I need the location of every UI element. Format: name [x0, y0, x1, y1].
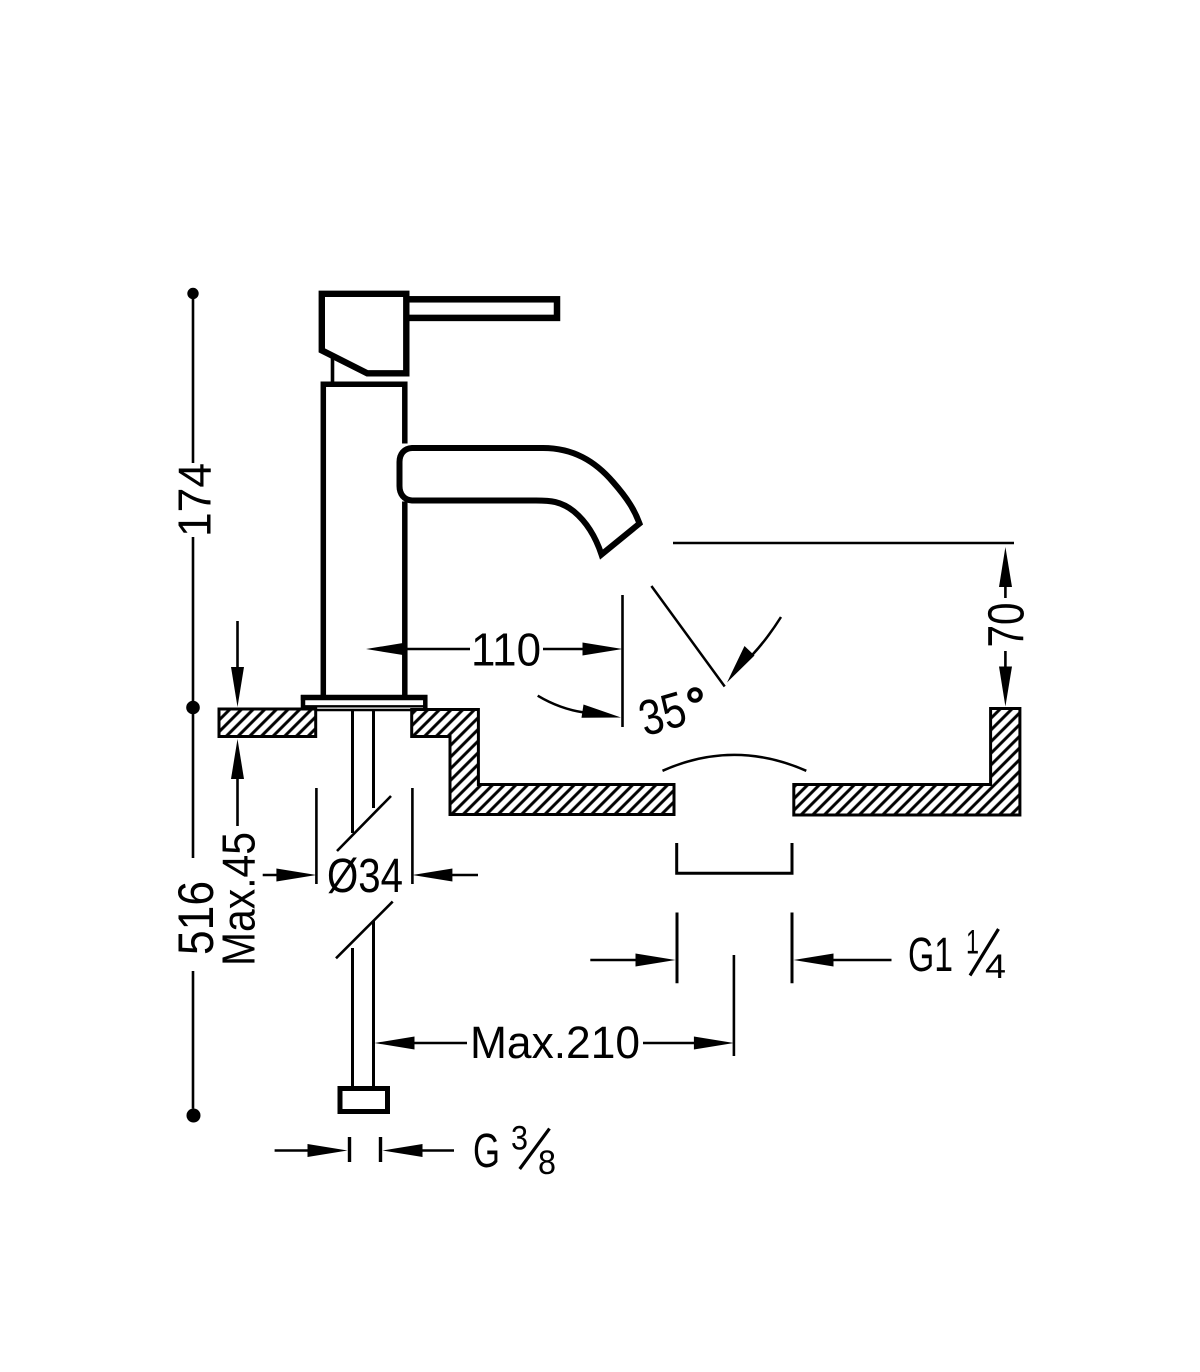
dot bottom: [187, 1109, 201, 1123]
svg-text:4: 4: [985, 948, 1006, 986]
faucet body column: [323, 384, 405, 697]
svg-text:110: 110: [471, 624, 541, 676]
Max.45 bottom arrow: [236, 779, 239, 826]
dot countertop: [186, 701, 200, 715]
G 3/8 ticks: [348, 1137, 351, 1162]
svg-text:8: 8: [538, 1144, 556, 1182]
base plate fill: [301, 695, 428, 710]
G1 1/4 arrows: [590, 959, 640, 962]
diameter 34 arrows: [263, 874, 280, 877]
Max.210 extension line: [733, 955, 736, 1056]
dimension 516 line: [192, 714, 195, 858]
svg-text:1: 1: [966, 924, 979, 962]
diameter 34 extension lines: [315, 788, 318, 884]
handle housing: [322, 294, 407, 374]
countertop left slab (hatched): [219, 709, 316, 737]
dimension Max.210: [375, 1037, 415, 1050]
base plate top edge: [301, 695, 428, 701]
handle lever: [406, 299, 557, 318]
dimension 70: [999, 547, 1012, 587]
spout height reference line: [673, 542, 1014, 544]
water jet line 35deg: [651, 586, 724, 687]
drain outline: [677, 843, 792, 873]
base plate inner line: [301, 705, 427, 707]
svg-text:G1: G1: [908, 929, 953, 982]
spout: [400, 448, 640, 555]
water surface arc: [663, 755, 807, 771]
svg-text:Ø34: Ø34: [327, 850, 403, 903]
cartridge stem: [331, 358, 335, 382]
G1 1/4 extension lines: [676, 913, 679, 984]
sink basin left section (hatched step): [412, 710, 674, 815]
spout root gap patch: [401, 444, 410, 502]
base plate right edge: [423, 695, 428, 711]
hose break slash 1: [337, 796, 391, 851]
35deg arc arrow right: [742, 617, 781, 665]
base plate bottom edge: [301, 709, 427, 712]
supply hose right line lower: [372, 921, 375, 1087]
35deg arc arrow left: [538, 696, 584, 713]
svg-text:70: 70: [977, 603, 1034, 648]
svg-text:Max.45: Max.45: [213, 832, 265, 966]
G 3/8 arrows: [275, 1149, 310, 1152]
supply hose left line upper: [351, 711, 354, 833]
dimension 110: [366, 643, 406, 656]
hose end fitting: [340, 1089, 388, 1112]
degree symbol: [689, 689, 701, 701]
dot top: [187, 288, 198, 299]
sink basin right section (hatched): [794, 709, 1020, 816]
svg-text:3: 3: [511, 1120, 528, 1158]
svg-text:Max.210: Max.210: [470, 1017, 640, 1068]
svg-text:174: 174: [169, 463, 221, 537]
svg-text:G: G: [473, 1125, 500, 1178]
dimension 174 line: [192, 299, 195, 463]
supply hose right line upper: [372, 711, 375, 808]
supply hose left line lower: [351, 948, 354, 1087]
hose break slash 2: [336, 902, 393, 959]
110 extension line: [621, 595, 624, 727]
base plate left edge: [301, 695, 306, 711]
Max.45 top arrow: [236, 621, 239, 670]
